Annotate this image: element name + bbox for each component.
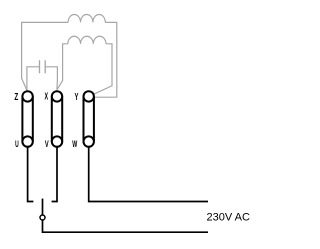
wire bbox=[43, 220, 209, 232]
wire bbox=[89, 147, 208, 202]
terminal Z bbox=[22, 91, 32, 101]
svg-text:X: X bbox=[45, 92, 49, 103]
svg-text:Y: Y bbox=[75, 92, 79, 103]
link Z-U bbox=[22, 96, 32, 141]
inductor L1 bbox=[68, 15, 105, 23]
link X-V bbox=[52, 96, 62, 141]
terminal U bbox=[22, 136, 32, 146]
node bbox=[40, 215, 45, 220]
terminal V bbox=[52, 136, 62, 146]
wire bbox=[27, 67, 40, 91]
terminal W bbox=[84, 136, 94, 146]
svg-text:230V AC: 230V AC bbox=[207, 211, 250, 223]
terminal Y bbox=[84, 91, 94, 101]
wire bbox=[22, 22, 69, 90]
inductor L2 bbox=[68, 36, 106, 44]
svg-text:V: V bbox=[45, 139, 49, 149]
svg-text:Z: Z bbox=[14, 92, 18, 103]
wire bbox=[57, 44, 68, 90]
wire bbox=[52, 147, 57, 202]
wire bbox=[45, 67, 57, 90]
capacitor C1 bbox=[40, 60, 46, 73]
svg-text:U: U bbox=[15, 139, 19, 149]
terminal X bbox=[52, 91, 62, 101]
wire bbox=[93, 44, 112, 95]
wire bbox=[95, 22, 117, 97]
wire bbox=[28, 147, 34, 202]
wire bbox=[42, 199, 44, 215]
link Y-W bbox=[84, 96, 94, 141]
svg-text:W: W bbox=[72, 139, 77, 149]
